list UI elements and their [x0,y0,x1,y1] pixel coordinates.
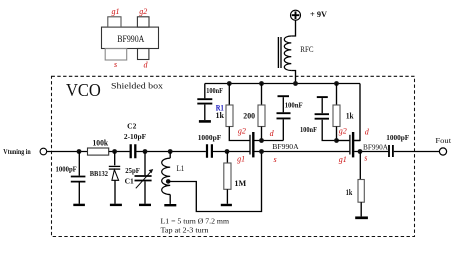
capacitor 1000pF output coupling [386,133,409,157]
inductor L1 [162,152,185,204]
node rail-1k [334,81,339,86]
shielded box dashed outline [52,76,415,236]
svg-text:2-10pF: 2-10pF [124,132,147,141]
svg-text:RFC: RFC [300,45,313,54]
resistor 1k at T2 source [346,152,365,217]
svg-text:BF990A: BF990A [117,34,144,44]
transistor U2 BF990A dual-gate MOSFET [350,132,389,157]
label T2 s [364,154,367,163]
output terminal Fout [435,136,452,155]
resistor 1M [224,152,247,204]
inductor RFC [278,36,313,71]
svg-text:g1: g1 [339,155,347,164]
svg-text:g2: g2 [339,127,347,136]
resistor 100k [88,138,109,155]
wire input to 100k [47,151,88,153]
node BB132 [112,149,117,154]
ground under BB132 [110,204,122,206]
ground under 1000pF input [73,204,85,206]
wire T2 source to output [354,151,388,153]
wire T2 g2 [337,140,350,142]
package pin s [105,49,127,61]
node 1M / T1 g1 [225,149,230,154]
package label g2 [139,7,147,16]
wire L1 tap feedback to T1 source [168,152,261,212]
varactor diode BB132 [90,152,121,204]
wire T1 source to T2 gate [255,151,350,153]
label T1 g2 [238,127,246,136]
svg-text:L1: L1 [177,164,185,173]
resistor 200 [243,84,265,141]
label T1 s [274,155,277,164]
svg-text:L1 = 5 turn Ø 7.2 mm: L1 = 5 turn Ø 7.2 mm [161,216,230,225]
ground under L1 [164,204,176,206]
node C1 [143,149,148,154]
svg-text:BB132: BB132 [90,169,109,178]
node input/1000pF [77,149,82,154]
svg-text:C1: C1 [125,177,134,186]
note L1 dimensions [161,216,230,234]
label T1 d [270,129,275,138]
ground under 1M [221,204,232,206]
svg-text:Vtuning in: Vtuning in [3,147,31,156]
wire +9V to RFC [291,20,295,36]
svg-text:g1: g1 [112,7,120,16]
svg-text:g2: g2 [139,7,147,16]
label T2 d [365,128,370,137]
svg-text:s: s [274,155,277,164]
wire 1000pF to T1 gate [213,151,250,153]
resistor 1k at T2 gate2 [333,84,354,141]
capacitor 100nF decoupling left [197,84,223,121]
wire 100k to C2 [109,151,130,153]
supply terminal +9V [291,9,328,20]
label Shielded box [111,81,164,91]
svg-text:1000pF: 1000pF [198,133,222,142]
svg-text:200: 200 [243,111,255,120]
svg-text:g2: g2 [238,127,246,136]
node T1 drain / 200 [259,138,264,143]
ground under 1k [355,216,368,219]
wire 1000pF to Fout [394,151,439,153]
label T2 g2 [339,127,347,136]
node T2 source [358,149,363,154]
node L1 top [168,149,173,154]
svg-text:BF990A: BF990A [363,143,389,152]
input terminal Vtuning [3,147,46,156]
svg-text:C2: C2 [127,121,136,130]
node L1 tap [166,179,171,184]
svg-text:1M: 1M [234,179,246,188]
package label s [114,60,117,69]
svg-text:Shielded box: Shielded box [111,81,164,91]
node rail-R1 [227,81,232,86]
package label g1 [112,7,120,16]
transistor U1 BF990A dual-gate MOSFET [250,132,299,157]
capacitor 1000pF coupling to T1 g1 [198,133,222,158]
svg-text:100k: 100k [93,138,109,147]
svg-text:1k: 1k [346,112,354,121]
ground under C1 [139,204,151,206]
capacitor 100nF feedthrough at T1 drain [277,96,304,140]
package label d [144,61,149,70]
label T2 g1 [339,155,347,164]
label T1 g1 [237,155,245,164]
package pin d [138,49,149,60]
node rail-RFC [293,81,298,86]
wire T1 drain [255,140,284,142]
svg-text:1000pF: 1000pF [386,133,409,142]
svg-text:VCO: VCO [66,80,101,100]
svg-text:1000pF: 1000pF [56,165,78,174]
node T1 source / feedback [259,149,264,154]
svg-text:Tap at 2-3 turn: Tap at 2-3 turn [161,226,209,235]
svg-text:+ 9V: + 9V [310,9,328,19]
wire T2 drain stub [354,140,360,142]
svg-text:g1: g1 [237,155,245,164]
svg-text:d: d [270,129,275,138]
svg-text:d: d [365,128,370,137]
node 100nF/1k to T2 g2 [334,138,339,143]
svg-text:BF990A: BF990A [272,142,299,151]
package pin g1 [108,17,121,27]
capacitor 1000pF input to ground [56,152,86,204]
svg-text:1k: 1k [216,111,225,120]
capacitor 100nF feedthrough at T2 gate2 [300,97,337,140]
svg-text:s: s [364,154,367,163]
svg-text:s: s [114,60,117,69]
svg-text:100nF: 100nF [300,125,317,134]
node rail-200 [259,81,264,86]
svg-text:25pF: 25pF [125,166,140,175]
resistor R1 1k [216,84,250,141]
capacitor C2 2-10pF [124,121,147,158]
wire RFC to rail [291,71,295,84]
label VCO [66,80,101,100]
svg-text:100nF: 100nF [206,86,223,95]
svg-text:d: d [144,61,149,70]
trimmer capacitor C1 25pF [125,152,154,204]
wire C2 to 1000pF [136,151,206,153]
package pin g2 [137,17,149,27]
wire rail end down to T2 drain [354,84,360,141]
svg-text:100nF: 100nF [285,101,303,110]
svg-text:Fout: Fout [435,136,452,145]
supply rail wire [205,83,360,85]
svg-text:1k: 1k [346,188,353,197]
package drawing BF990A body [102,27,159,48]
ground under 100nF [199,120,211,123]
